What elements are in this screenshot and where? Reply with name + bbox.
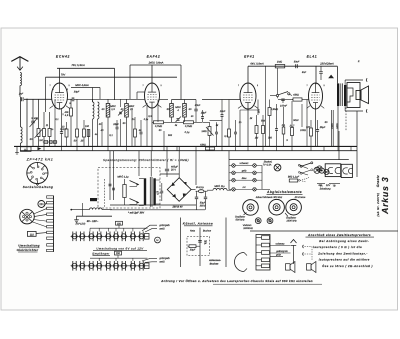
svg-text:Empfänger: Empfänger (92, 251, 110, 255)
resistor R5 (65, 122, 68, 146)
label 250 B40 (172, 206, 184, 209)
label 25uF (319, 121, 328, 129)
heater unit 2-5 (104, 261, 112, 271)
label MRK 4,8mA (75, 84, 89, 87)
lamp 6V (317, 166, 322, 171)
comb tick 6 (47, 226, 54, 228)
comb tick 4 (47, 213, 54, 215)
connector row rot (229, 186, 262, 191)
svg-text:Umschaltung von 6V auf 12V: Umschaltung von 6V auf 12V (96, 246, 144, 250)
heater unit 2-2 (78, 261, 86, 271)
switch mains b (130, 199, 140, 205)
tube socket diagram (27, 162, 48, 185)
svg-text:blau: blau (242, 177, 247, 180)
svg-text:0,2nF: 0,2nF (60, 128, 67, 131)
rectifier bridge (167, 178, 191, 202)
wire (202, 99, 240, 101)
IF transformer T2 coil b (183, 100, 187, 123)
svg-text:50nF: 50nF (293, 119, 299, 122)
svg-text:Öse zu löten ( 2Ω-Anschluß ): Öse zu löten ( 2Ω-Anschluß ) (322, 264, 373, 268)
label gruen/gelb 2 (159, 257, 170, 263)
svg-text:25µF: 25µF (319, 126, 326, 129)
capacitor 8nF (302, 66, 323, 80)
socket group box b (341, 164, 352, 177)
label N40 (31, 117, 37, 120)
filter choke (207, 188, 231, 190)
wire psu drop 1 (138, 151, 140, 176)
wire drop b (120, 99, 122, 146)
svg-text:schwarz: schwarz (276, 242, 286, 245)
wire cathode EF41 (247, 109, 249, 146)
label sprinkle b (148, 115, 190, 137)
svg-text:10nF: 10nF (220, 110, 226, 113)
svg-text:2.: 2. (357, 60, 360, 63)
wire (337, 106, 339, 146)
ground 6V (74, 216, 79, 222)
resistor 0,7M a (152, 121, 172, 128)
svg-text:25: 25 (80, 140, 84, 143)
voltage box 110 (27, 232, 36, 237)
note line 4 (319, 258, 370, 262)
label 6V 12V (319, 184, 332, 190)
label ech pins (52, 88, 71, 116)
wire bridge top (160, 174, 179, 178)
label 75V 5,3mA (71, 64, 85, 67)
resistor R9 (134, 117, 137, 146)
label MRO 1,1u (117, 175, 129, 179)
svg-text:(ab Nr. 24075): (ab Nr. 24075) (376, 193, 380, 217)
tone switch frame (256, 235, 270, 271)
label EF41 (244, 55, 255, 59)
svg-text:Inbaut Nörtweis 500 kHz: Inbaut Nörtweis 500 kHz (256, 196, 283, 199)
svg-text:500 kHz: 500 kHz (236, 218, 246, 221)
bus junction blob (38, 147, 42, 150)
svg-text:150: 150 (117, 222, 122, 225)
wire 12V rail (76, 215, 112, 217)
tone resistor 3 (256, 251, 270, 255)
svg-text:2: 2 (257, 84, 258, 87)
svg-text:Abgleichelemente: Abgleichelemente (266, 190, 302, 194)
label 6V 12V rail (87, 220, 99, 223)
wire 75V segment (57, 68, 115, 100)
wire box-tick (36, 232, 47, 235)
label EL41 (307, 55, 318, 59)
svg-text:rot: rot (243, 186, 246, 189)
pilot lamp (274, 164, 281, 171)
label 64V 0,8mA (250, 63, 264, 66)
heater unit 1-5 (104, 232, 112, 242)
svg-text:2nF: 2nF (18, 93, 24, 96)
heater unit 2-1 (71, 261, 79, 271)
resistor R3 (48, 112, 51, 146)
socket jack 4 (343, 168, 348, 174)
svg-text:pF: pF (203, 242, 207, 245)
label extra b (95, 123, 102, 136)
wire 1M to switch (277, 68, 279, 94)
node A (26, 99, 27, 100)
svg-text:schwarz: schwarz (240, 162, 250, 165)
svg-text:300: 300 (268, 137, 273, 140)
wire (68, 98, 105, 100)
wire cathode (151, 108, 153, 146)
heater unit 2-3 (87, 261, 95, 271)
switch 6V12V (300, 162, 313, 180)
label 40k (65, 111, 70, 117)
comb tick 10 (47, 249, 54, 251)
svg-text:Bei Anbringung eines Zweit-: Bei Anbringung eines Zweit- (319, 239, 369, 243)
heater row 1 wire (71, 235, 149, 237)
wire (20, 97, 22, 127)
kantenne wire (199, 228, 201, 267)
label 150V (331, 123, 334, 129)
terminal C2 (365, 109, 368, 112)
svg-text:150: 150 (116, 252, 121, 255)
label Empfaenger (92, 251, 110, 255)
label 240V (336, 123, 339, 130)
resistor R7 (83, 120, 86, 146)
svg-text:245V, 0,6mA: 245V, 0,6mA (148, 61, 164, 64)
tone resistor 1 (256, 236, 270, 240)
switch S-tone (270, 92, 292, 97)
trimmer cap T2 (176, 117, 182, 123)
wire anode EF41 (247, 66, 249, 83)
label Oszillator 500 (235, 213, 247, 222)
note line 5 (322, 264, 373, 268)
wire 220-tick (44, 203, 47, 207)
label T2 (167, 106, 192, 112)
heater row 2 end (145, 263, 150, 269)
svg-text:Achtung ! Vor Öffnen u. Aufse: Achtung ! Vor Öffnen u. Aufsetzen des La… (160, 279, 313, 283)
resistor Ra (255, 115, 258, 146)
output transformer primary (337, 83, 339, 106)
label 2. (357, 60, 360, 63)
svg-text:6V~ 12V~: 6V~ 12V~ (87, 220, 99, 223)
wire (345, 80, 363, 86)
svg-text:Spannungsmessung: Röhrenvoltme: Spannungsmessung: Röhrenvoltmeter ( Ri =… (103, 158, 189, 162)
IF transformer T1 coil b (125, 99, 129, 146)
svg-text:TB: TB (332, 185, 335, 188)
svg-text:1600 kHz: 1600 kHz (286, 219, 297, 222)
svg-text:25: 25 (129, 108, 133, 111)
wire bus 70V (46, 77, 178, 112)
caption (160, 279, 322, 284)
trimmer cap T1 (118, 110, 124, 116)
oscillator coil L3 (93, 99, 95, 146)
label Umschaltung Gleichrichter (17, 244, 40, 252)
wire heater labels 2 (142, 258, 157, 262)
note line 3 (317, 251, 368, 255)
svg-text:Anschluß eines Zweitlautsprech: Anschluß eines Zweitlautsprechers (307, 233, 371, 237)
svg-text:235V/28mA: 235V/28mA (319, 63, 334, 66)
wire dashed drop (345, 108, 347, 132)
wire psu drop 4 (195, 151, 197, 185)
socket labels (317, 184, 340, 188)
svg-text:7: 7 (142, 84, 143, 87)
wire (160, 99, 169, 101)
wire selector-ticks (32, 209, 47, 227)
capacitor 50uF a (195, 193, 198, 210)
svg-text:110: 110 (30, 233, 35, 236)
capacitor C heater (160, 183, 163, 201)
label 70V (61, 73, 66, 76)
connector row blau (229, 177, 262, 182)
heater row 1 top wire (90, 225, 148, 231)
heater unit 1-4 (95, 232, 103, 242)
note separator (250, 230, 398, 232)
label 6,3V (157, 191, 160, 195)
capacitor 100nF (278, 97, 285, 101)
svg-text:70V: 70V (61, 73, 66, 76)
svg-text:MRÖ 1,1µ: MRÖ 1,1µ (117, 175, 129, 179)
resistor Rb (262, 115, 265, 146)
brand Arkus 3 (380, 176, 390, 215)
wire (203, 121, 210, 123)
wire mains top (110, 151, 114, 160)
terminal C1 (365, 78, 368, 81)
svg-text:2: 2 (323, 84, 324, 87)
resistor 21,7 (289, 101, 295, 146)
capacitor 30pF (72, 91, 80, 102)
label ECH42 (56, 55, 70, 59)
ground bus main (14, 145, 357, 147)
label mit 2uF (128, 211, 144, 214)
socket jack 2 (328, 167, 333, 173)
band switch boxes (43, 140, 57, 143)
tube EAF42 (142, 83, 161, 108)
socket group box a (325, 164, 341, 177)
resistor 0,7M b (184, 121, 203, 128)
heater unit 2-7 (120, 261, 128, 271)
wire 6V rail (70, 209, 112, 211)
capacitor C13 (234, 120, 237, 146)
resistor R8 (87, 130, 90, 147)
voltage selector plug (20, 209, 35, 224)
resistor 63k inline (200, 143, 214, 150)
svg-text:350V: 350V (200, 204, 206, 207)
heater unit 2-4 (95, 261, 103, 271)
resistor R2 1M (43, 112, 46, 146)
wire (336, 66, 338, 83)
label abgleich sub (256, 196, 306, 199)
label gelb gruen (276, 250, 288, 257)
output transformer secondary (344, 85, 346, 106)
wire (26, 99, 28, 146)
lamp br (155, 237, 161, 243)
mains dash divider (103, 179, 105, 208)
svg-text:0,1µ: 0,1µ (185, 131, 190, 134)
svg-text:100: 100 (85, 125, 90, 128)
svg-text:100nF: 100nF (280, 104, 287, 107)
svg-text:Künstl. Antenne: Künstl. Antenne (183, 222, 213, 226)
capacitor C12 (215, 122, 218, 146)
svg-text:75V, 5,3mA: 75V, 5,3mA (71, 64, 85, 67)
note line 1 (319, 239, 369, 243)
separator left (180, 218, 182, 268)
svg-text:1MΩ: 1MΩ (201, 130, 206, 133)
wire dashed jacks (305, 247, 313, 261)
comb tick 2 (47, 202, 54, 204)
label sprinkle a (101, 118, 135, 137)
wire (104, 98, 145, 100)
svg-text:1MΩ: 1MΩ (277, 61, 282, 64)
svg-text:1600kHz: 1600kHz (243, 227, 253, 230)
wire h seg (210, 110, 259, 121)
wire sockets rail (300, 131, 349, 160)
speaker magnet (356, 91, 361, 100)
tube ECH42 (49, 83, 69, 109)
potentiometer 1M (201, 122, 213, 146)
svg-text:TA: TA (320, 185, 323, 188)
wire psu drop 2 (150, 151, 152, 177)
resistor 40k (70, 99, 73, 146)
speaker second (307, 262, 316, 273)
jack out 2 (302, 253, 305, 256)
capacitor 25uF (316, 120, 319, 146)
label T1b (121, 105, 135, 111)
svg-text:grün: grün (276, 254, 282, 257)
tube EL41 (306, 83, 324, 109)
svg-text:br: br (156, 239, 158, 242)
svg-text:64V, 0,8mA: 64V, 0,8mA (250, 63, 264, 66)
brand Graetz (376, 175, 380, 187)
box 150 mid (115, 251, 122, 255)
label gruen/gelb 1 (159, 224, 170, 230)
svg-text:2: 2 (160, 84, 161, 87)
svg-text:Arkus 3: Arkus 3 (380, 176, 390, 215)
wire right drop (356, 111, 358, 177)
wire osc feedback (71, 88, 100, 103)
svg-text:250 B 40: 250 B 40 (172, 206, 184, 209)
label schwarz (276, 242, 286, 245)
wire (172, 99, 197, 101)
svg-text:EAF42: EAF42 (147, 55, 161, 59)
svg-text:* mit 2µF 30V: * mit 2µF 30V (128, 211, 144, 214)
note heading (306, 233, 375, 237)
svg-text:2n: 2n (131, 118, 135, 121)
label Sockelschaltung (23, 185, 54, 189)
voltage tap 220 (38, 201, 45, 208)
label ZF=472 kHz (26, 158, 54, 162)
svg-text:MRÖ 11µ: MRÖ 11µ (214, 184, 225, 188)
wire anode EL41 (315, 66, 317, 84)
socket jack 5 (348, 168, 352, 173)
heater unit 2-8 (129, 261, 137, 271)
label Kuenstl Antenne (183, 222, 213, 226)
resistor 1M inline (275, 61, 285, 68)
wire ps bottom (110, 205, 205, 210)
label 6V-12V (76, 222, 86, 225)
switch contacts left (298, 164, 308, 182)
label EAF42 (147, 55, 161, 59)
alignment trimmer 2 (267, 218, 273, 224)
label extra c (139, 118, 149, 132)
label Spannungsmessung (103, 158, 189, 162)
label 245V 0,6mA (148, 61, 164, 64)
svg-text:25 V: 25 V (171, 169, 176, 172)
ground bus second (20, 150, 357, 152)
terminal comb rail (53, 196, 55, 252)
label Umschaltung 6V12V (93, 246, 147, 250)
wire pair to bottom (332, 110, 334, 146)
capacitor 25pF (112, 120, 119, 146)
comb tick 8 (47, 237, 54, 239)
wire drop c (147, 100, 158, 147)
wire bridge right (191, 189, 195, 191)
heater unit 2-6 (112, 261, 120, 271)
svg-text:Netz: Netz (190, 230, 196, 233)
svg-text:EL41: EL41 (307, 55, 318, 59)
svg-text:EF41: EF41 (244, 55, 255, 59)
choke 6V (90, 208, 103, 210)
heater row 1 end (145, 234, 150, 240)
resistor R6 (76, 99, 79, 146)
fuse box (288, 175, 300, 182)
svg-text:B+2,1µ: B+2,1µ (196, 186, 204, 189)
svg-text:7: 7 (238, 84, 239, 87)
wire EF41 screen drop (265, 66, 267, 146)
wire sprinkle (102, 100, 307, 147)
svg-text:10kΩ: 10kΩ (300, 129, 306, 132)
alignment core big 2 (269, 199, 285, 215)
svg-text:lautsprechers ( 5 Ω ) ist die: lautsprechers ( 5 Ω ) ist die (313, 245, 362, 249)
label extra a (50, 118, 60, 131)
capacitor mains a (109, 184, 116, 190)
label T1a (102, 105, 116, 111)
wire anode EAF42 (151, 65, 153, 83)
label 465uF 25V (171, 166, 178, 172)
capacitor 10pF (201, 110, 207, 122)
svg-text:43kΩ: 43kΩ (293, 94, 299, 97)
svg-text:ZF-Kreise: ZF-Kreise (294, 196, 306, 199)
psu dashed box (98, 168, 160, 209)
wire 235V segment (248, 65, 337, 67)
wire heater labels 1 (142, 225, 157, 232)
label Vorkreis (243, 224, 254, 230)
wire 6V vert (81, 203, 83, 216)
power transformer core (150, 177, 152, 207)
label extra d (175, 115, 194, 127)
trimmer capacitor C2 (31, 99, 35, 146)
ground mast (291, 240, 297, 265)
speaker main (286, 262, 295, 273)
heater unit 1-3 (87, 232, 95, 242)
power transformer secondary (153, 178, 155, 205)
switch mains a (130, 181, 140, 187)
output transformer core (341, 83, 343, 106)
tone resistor 4 (256, 258, 270, 262)
wire drop a (54, 99, 56, 146)
label choke (214, 184, 225, 188)
svg-text:Buchse: Buchse (210, 262, 219, 265)
svg-text:50nF: 50nF (294, 61, 300, 64)
wire tone out (270, 246, 291, 257)
svg-text:60nF: 60nF (195, 104, 201, 107)
comb tick 7 (47, 231, 54, 233)
capacitor 50uF b (204, 193, 207, 210)
heater unit 1-1 (71, 232, 79, 242)
heater unit 1-6 (112, 232, 120, 242)
label Antennen-Buchse (208, 259, 221, 265)
heater unit 1-9 (138, 232, 146, 242)
resistor dropper (123, 179, 126, 205)
svg-text:Schaltung: Schaltung (320, 188, 331, 191)
IF transformer T2 coil a (170, 100, 174, 123)
connector row gelb (229, 169, 262, 174)
resistor R1 50k (37, 99, 40, 146)
speaker frame (347, 83, 360, 108)
wire grid EAF42 (137, 92, 145, 99)
lamp 12V (324, 169, 329, 174)
